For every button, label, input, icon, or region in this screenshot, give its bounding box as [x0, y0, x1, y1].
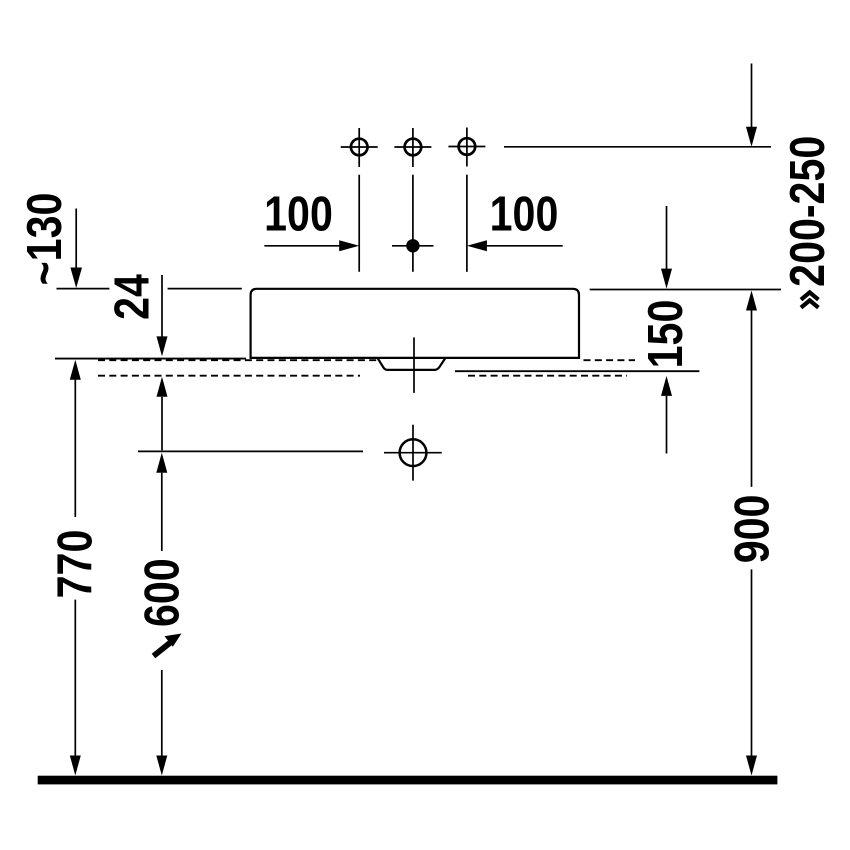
label 770: [47, 530, 102, 599]
dimension 900 vertical line: [751, 311, 753, 757]
tap hole circle middle: [394, 128, 431, 167]
svg-text:100: 100: [264, 186, 333, 241]
svg-text:900: 900: [724, 495, 779, 564]
drain centerline extension to left: [138, 450, 363, 452]
label 100 right: [490, 186, 559, 241]
dimension 24 down arrow: [157, 275, 168, 356]
dimension 150 up arrow with tail: [661, 376, 672, 454]
label 600: [134, 558, 189, 627]
dimension 150 down arrow: [661, 206, 672, 289]
dimension 600 down arrow: [156, 756, 167, 776]
svg-text:100: 100: [490, 186, 559, 241]
faucet center dot: [392, 239, 434, 252]
dimension ~130 down arrow: [70, 209, 82, 289]
countertop top dashed line left part: [98, 359, 378, 361]
dimension 100 right arrow: [467, 240, 563, 251]
svg-text:150: 150: [638, 300, 693, 369]
svg-text:~130: ~130: [17, 193, 72, 286]
top right reference line at hole level: [504, 146, 771, 148]
svg-text:770: 770: [47, 530, 102, 599]
label 150: [638, 300, 693, 369]
reference line 150 bottom: [455, 370, 699, 372]
dimension 100 left arrow: [264, 240, 359, 251]
label 900: [724, 495, 779, 564]
basin vertical centerline: [413, 337, 415, 393]
dimension 900 up arrow: [746, 291, 757, 311]
label ~130: [17, 193, 72, 286]
label 24: [104, 274, 159, 320]
dimension 200-250 down arrow: [746, 64, 757, 147]
tap hole circle left: [341, 128, 378, 167]
dimension 24 up arrow with tail: [157, 377, 168, 451]
drain hole circle: [384, 425, 442, 481]
dimension 900 down arrow: [746, 756, 757, 776]
adjustable height arrow NE: [154, 634, 182, 657]
extension line below right hole: [466, 175, 468, 272]
countertop top dashed line right part: [584, 359, 636, 361]
reference line basin top right: [590, 289, 781, 291]
label 200-250: [779, 136, 834, 287]
dimension 600 lower line: [161, 670, 163, 757]
svg-text:600: 600: [134, 558, 189, 627]
dimension 770 up arrow: [70, 360, 81, 380]
dimension 770 down arrow: [70, 756, 81, 776]
floor line: [38, 776, 778, 785]
extension line below left hole: [358, 175, 360, 272]
tap hole circle right: [448, 128, 485, 167]
label 100 left: [264, 186, 333, 241]
label chevrons (adjustable symbol): [801, 292, 818, 307]
extension line below middle hole: [412, 175, 414, 272]
svg-text:200-250: 200-250: [779, 136, 834, 287]
washbasin body outline: [251, 289, 579, 358]
countertop bottom dashed line right: [468, 375, 627, 377]
countertop bottom dashed line left: [98, 375, 360, 377]
countertop solid reference line left: [55, 358, 246, 360]
dimension 600 up arrow at drain line: [156, 453, 167, 551]
dimension 770 vertical line: [74, 379, 76, 757]
svg-text:24: 24: [104, 274, 159, 320]
tick line at basin top level left: [57, 288, 242, 290]
washbasin drain pedestal: [378, 358, 446, 370]
